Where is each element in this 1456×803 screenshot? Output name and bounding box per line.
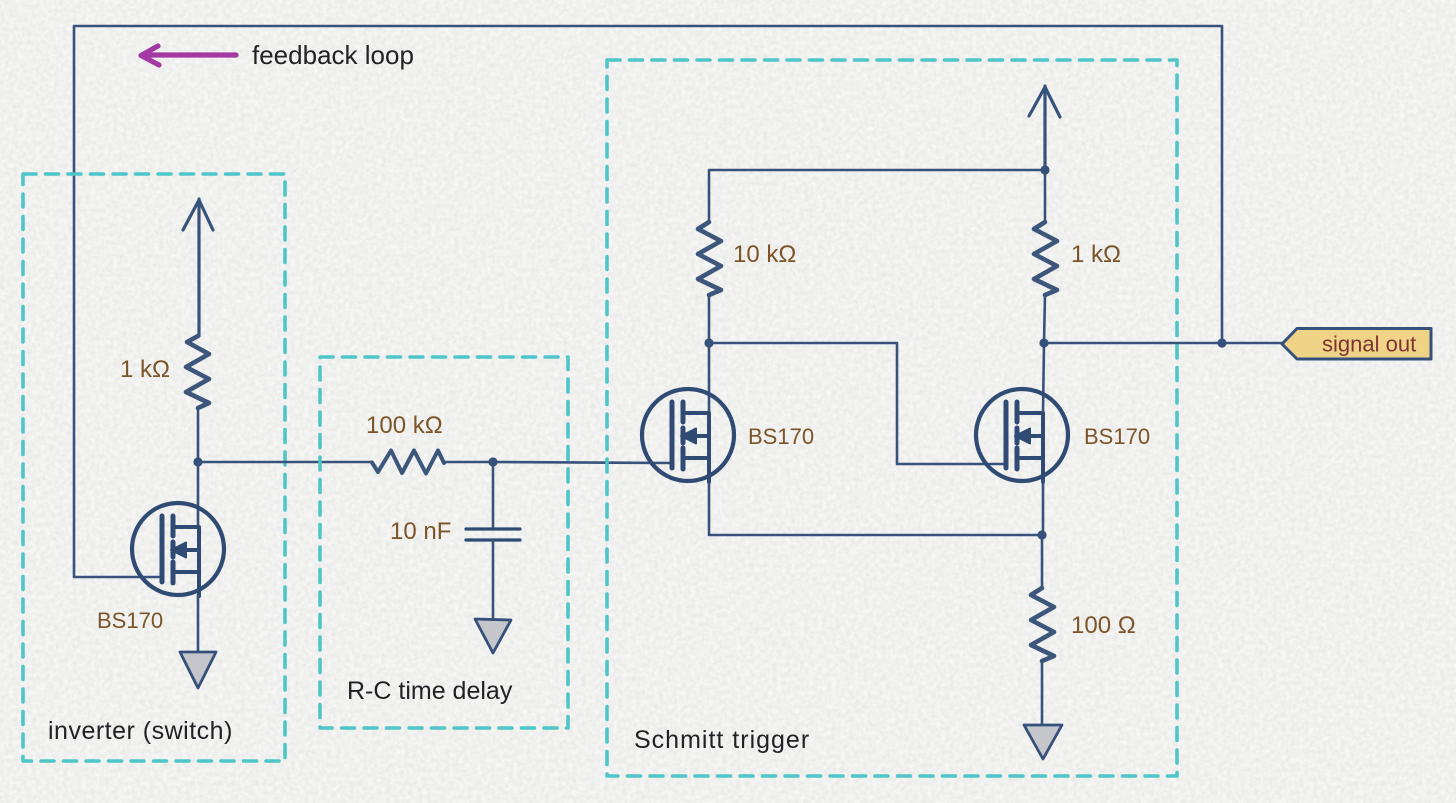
wire: cross-coupling node D to Q3 gate — [709, 343, 1005, 464]
wire: R3 to node D — [708, 295, 711, 343]
node G (feedback junction) — [1217, 338, 1226, 347]
wire: Q1 drain — [197, 462, 200, 527]
feedback arrow — [141, 46, 236, 65]
transistor Q2 (BS170, Schmitt left) — [642, 389, 734, 482]
wire: R2 to node B to Q2 gate — [443, 462, 671, 463]
svg-text:feedback loop: feedback loop — [252, 40, 414, 70]
R-C box — [320, 357, 568, 728]
wire: Q2 drain — [708, 343, 711, 413]
svg-text:100 kΩ: 100 kΩ — [366, 412, 443, 439]
svg-text:R-C time delay: R-C time delay — [347, 677, 513, 705]
ground (inverter) — [180, 652, 216, 688]
flag: signal out — [1282, 329, 1431, 360]
node E — [1037, 530, 1046, 539]
svg-text:10 nF: 10 nF — [390, 518, 451, 545]
node C — [1040, 165, 1049, 174]
ground (Schmitt) — [1024, 725, 1062, 759]
wire: feedback loop (top rail and left drop) — [74, 26, 1222, 577]
transistor Q3 (BS170, Schmitt right) — [976, 389, 1068, 482]
node A — [193, 457, 202, 466]
wire: R4 to node F — [1044, 295, 1045, 343]
node B — [488, 457, 497, 466]
wire: node B down to C1 — [492, 462, 495, 528]
wire: R5 to ground — [1041, 661, 1044, 725]
svg-text:BS170: BS170 — [97, 608, 163, 633]
svg-text:signal out: signal out — [1322, 332, 1416, 357]
wire: node C to R4 — [1044, 170, 1047, 222]
wire: Q1 source to ground — [197, 595, 200, 652]
wire: Q3 drain — [1043, 343, 1044, 413]
svg-text:1 kΩ: 1 kΩ — [120, 356, 170, 383]
node F — [1039, 338, 1048, 347]
VCC arrow (inverter) — [183, 199, 213, 336]
wire: output — [1044, 342, 1282, 345]
Schmitt trigger box — [607, 60, 1177, 776]
resistor R5 100 Ω — [1031, 588, 1054, 661]
node D — [704, 338, 713, 347]
inverter box — [23, 174, 285, 761]
wire: R1 to node A — [197, 408, 200, 462]
wire: Q3 source to node E — [1042, 481, 1045, 535]
capacitor C1 10 nF — [466, 529, 520, 540]
svg-text:inverter (switch): inverter (switch) — [48, 717, 233, 745]
transistor Q1 (BS170, inverter) — [132, 503, 224, 596]
wire: VCC rail — [709, 170, 1045, 222]
resistor R2 100 kΩ — [372, 451, 444, 474]
wire: node E to R5 — [1041, 535, 1044, 588]
svg-text:BS170: BS170 — [1084, 424, 1150, 449]
svg-text:1 kΩ: 1 kΩ — [1071, 241, 1121, 268]
svg-text:10 kΩ: 10 kΩ — [733, 241, 796, 268]
wire: Q2 source to node E — [709, 481, 1042, 535]
resistor R4 1 kΩ — [1034, 222, 1057, 295]
svg-text:BS170: BS170 — [748, 424, 814, 449]
svg-text:Schmitt trigger: Schmitt trigger — [634, 726, 810, 754]
ground (R-C) — [475, 619, 511, 653]
svg-text:100 Ω: 100 Ω — [1071, 612, 1136, 639]
resistor R1 1 kΩ — [186, 336, 209, 408]
VCC arrow (Schmitt) — [1029, 86, 1060, 170]
wire: node A to R2 — [198, 461, 371, 464]
resistor R3 10 kΩ — [698, 222, 721, 295]
wire: C1 to ground — [492, 540, 495, 619]
